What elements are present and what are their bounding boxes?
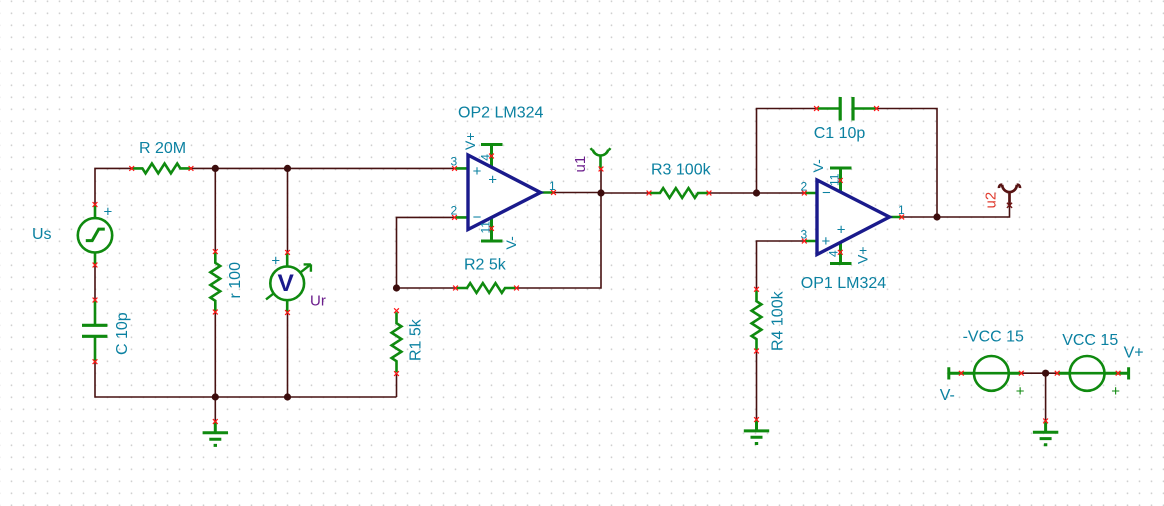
svg-text:r 100: r 100 xyxy=(227,262,244,299)
svg-text:V: V xyxy=(278,270,295,297)
svg-text:−: − xyxy=(822,184,831,201)
svg-text:+: + xyxy=(822,233,831,250)
svg-text:2: 2 xyxy=(451,204,458,218)
svg-text:R3 100k: R3 100k xyxy=(651,162,712,179)
svg-text:+: + xyxy=(488,172,497,189)
svg-text:+: + xyxy=(837,222,846,239)
svg-text:2: 2 xyxy=(801,180,808,194)
svg-text:+: + xyxy=(1016,383,1025,400)
svg-text:Ur: Ur xyxy=(310,293,326,310)
svg-text:V+: V+ xyxy=(1124,345,1144,362)
svg-text:R4 100k: R4 100k xyxy=(770,290,787,351)
svg-text:Us: Us xyxy=(32,226,52,243)
svg-text:R 20M: R 20M xyxy=(139,140,186,157)
svg-text:OP1 LM324: OP1 LM324 xyxy=(801,275,886,292)
svg-text:+: + xyxy=(104,204,113,221)
svg-text:OP2 LM324: OP2 LM324 xyxy=(458,105,543,122)
svg-text:+: + xyxy=(1111,383,1120,400)
svg-text:+: + xyxy=(473,163,482,180)
svg-text:3: 3 xyxy=(451,155,458,169)
svg-text:4: 4 xyxy=(479,154,493,161)
svg-text:V+: V+ xyxy=(462,132,478,150)
svg-text:u1: u1 xyxy=(572,156,589,173)
svg-text:+: + xyxy=(271,253,280,270)
svg-text:3: 3 xyxy=(801,228,808,242)
svg-text:−: − xyxy=(473,209,482,226)
svg-text:C1 10p: C1 10p xyxy=(814,125,866,142)
svg-text:-VCC 15: -VCC 15 xyxy=(963,329,1024,346)
svg-text:1: 1 xyxy=(549,179,556,193)
svg-text:4: 4 xyxy=(827,250,841,257)
svg-text:V-: V- xyxy=(810,159,826,173)
svg-text:R2 5k: R2 5k xyxy=(464,257,507,274)
svg-text:V-: V- xyxy=(503,236,519,250)
svg-text:R1 5k: R1 5k xyxy=(408,318,425,361)
svg-text:VCC 15: VCC 15 xyxy=(1062,332,1118,349)
svg-text:V+: V+ xyxy=(855,246,871,264)
svg-text:u2: u2 xyxy=(983,192,1000,209)
svg-text:V-: V- xyxy=(940,387,955,404)
svg-text:1: 1 xyxy=(898,203,905,217)
svg-text:C 10p: C 10p xyxy=(114,312,131,355)
